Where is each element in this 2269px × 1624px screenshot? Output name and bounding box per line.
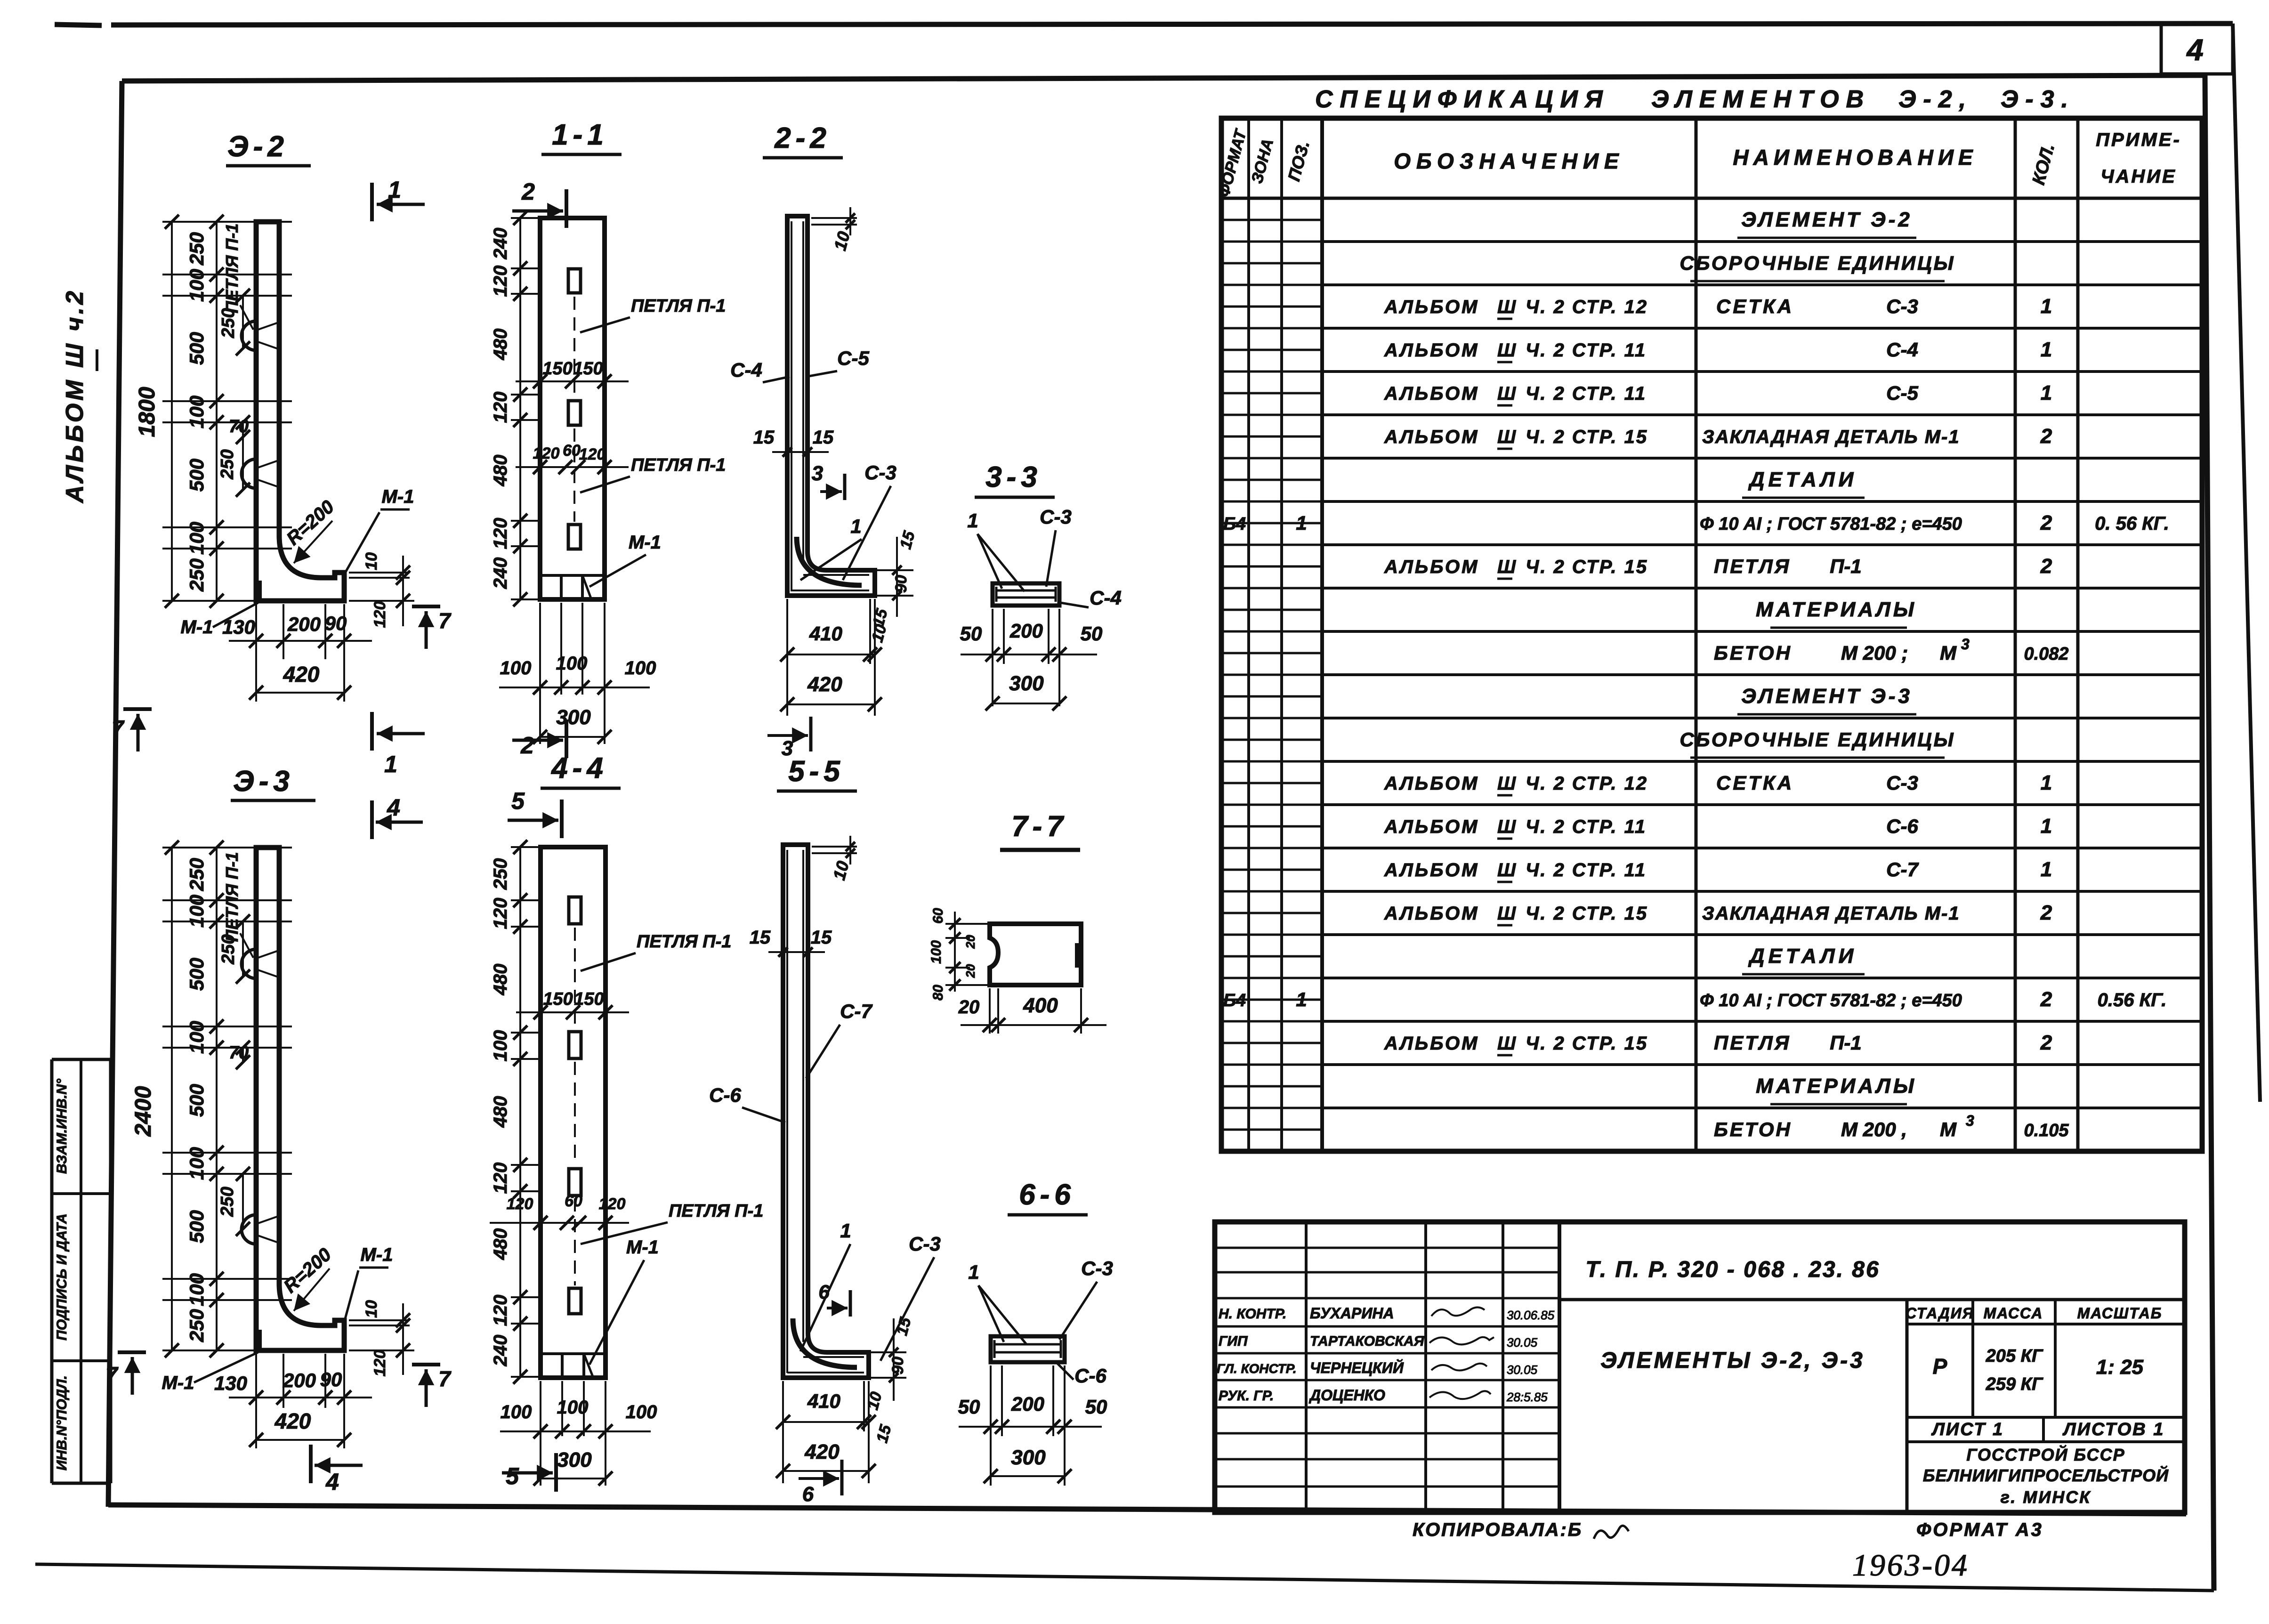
- 4-4 center dash line: [574, 928, 576, 1029]
- svg-text:15: 15: [750, 927, 771, 948]
- svg-text:250: 250: [186, 558, 208, 592]
- 7-7 bottom dim 20 400: [989, 988, 991, 1034]
- svg-text:ЗАКЛАДНАЯ ДЕТАЛЬ М-1: ЗАКЛАДНАЯ ДЕТАЛЬ М-1: [1702, 427, 1960, 447]
- 5-5 bottom dim 420: [783, 1470, 869, 1472]
- svg-text:480: 480: [490, 1096, 511, 1128]
- E-3 section mark 7 right: [412, 1363, 440, 1366]
- svg-text:Ш: Ш: [1497, 773, 1516, 794]
- svg-text:420: 420: [807, 673, 842, 696]
- E-2 overall dim 1800: [171, 222, 173, 601]
- svg-text:КОПИРОВАЛА:Б: КОПИРОВАЛА:Б: [1413, 1519, 1583, 1540]
- E-3 bottom dim chain 130/200/90: [255, 1354, 257, 1448]
- svg-text:ГИП: ГИП: [1219, 1333, 1248, 1349]
- svg-text:ИНВ.N°ПОДЛ.: ИНВ.N°ПОДЛ.: [54, 1375, 70, 1470]
- E-2 extension lines: [162, 221, 292, 223]
- svg-text:300: 300: [1009, 672, 1044, 695]
- svg-text:90: 90: [892, 575, 910, 593]
- svg-text:120: 120: [599, 1195, 626, 1213]
- 1-1 bottom band M-1: [540, 574, 605, 577]
- svg-text:250: 250: [218, 1187, 237, 1217]
- svg-text:ФОРМАТ А3: ФОРМАТ А3: [1916, 1519, 2043, 1540]
- svg-text:100: 100: [186, 522, 208, 555]
- E-3 loop position dims: [242, 921, 244, 977]
- svg-text:2: 2: [2040, 555, 2052, 578]
- svg-text:Ч. 2 СТР. 15: Ч. 2 СТР. 15: [1526, 557, 1648, 577]
- svg-text:500: 500: [186, 1210, 208, 1243]
- svg-text:205 КГ: 205 КГ: [1986, 1346, 2043, 1366]
- svg-text:120: 120: [490, 518, 511, 549]
- E-3 lifting loop 2: [242, 1215, 256, 1244]
- svg-text:200: 200: [1009, 620, 1043, 642]
- section mark 7 right: [412, 605, 440, 608]
- svg-text:500: 500: [186, 958, 208, 991]
- svg-text:410: 410: [809, 622, 842, 645]
- 2-2 bottom dim 420: [787, 703, 875, 705]
- 4-4 bottom dims 100x3: [540, 1381, 541, 1486]
- svg-text:ЭЛЕМЕНТ Э-3: ЭЛЕМЕНТ Э-3: [1741, 685, 1913, 708]
- svg-text:120: 120: [371, 601, 389, 628]
- svg-text:ДОЦЕНКО: ДОЦЕНКО: [1308, 1387, 1385, 1404]
- svg-text:АЛЬБОМ: АЛЬБОМ: [1384, 340, 1479, 361]
- svg-text:АЛЬБОМ Ш ч.2: АЛЬБОМ Ш ч.2: [61, 288, 89, 504]
- svg-text:РУК. ГР.: РУК. ГР.: [1219, 1388, 1274, 1404]
- svg-text:Б4: Б4: [1223, 514, 1246, 534]
- 2-2 dim 15 15: [772, 451, 829, 453]
- svg-text:6: 6: [818, 1281, 830, 1303]
- title block stage/mass/scale headers: [1907, 1323, 2185, 1325]
- E-3 bottom dim 420: [256, 1439, 344, 1441]
- svg-text:АЛЬБОМ: АЛЬБОМ: [1384, 1033, 1479, 1054]
- svg-text:Ш: Ш: [1497, 297, 1516, 317]
- svg-text:120: 120: [371, 1350, 389, 1377]
- E-2 bottom dim 420: [256, 692, 344, 694]
- 4-4 slot hole 1: [569, 897, 581, 924]
- svg-text:100: 100: [186, 895, 208, 928]
- svg-text:30.05: 30.05: [1507, 1335, 1538, 1349]
- svg-text:50: 50: [958, 1396, 980, 1418]
- svg-text:3: 3: [1961, 636, 1970, 653]
- drawing frame: [122, 75, 2204, 81]
- svg-text:СБОРОЧНЫЕ ЕДИНИЦЫ: СБОРОЧНЫЕ ЕДИНИЦЫ: [1680, 252, 1955, 274]
- svg-text:4: 4: [387, 794, 400, 821]
- svg-text:ВЗАМ.ИНВ.N°: ВЗАМ.ИНВ.N°: [54, 1078, 70, 1174]
- 1-1 bottom dim 300: [540, 736, 605, 738]
- svg-text:АЛЬБОМ: АЛЬБОМ: [1384, 297, 1479, 317]
- svg-text:С-7: С-7: [840, 1000, 872, 1022]
- svg-text:Ч. 2 СТР. 15: Ч. 2 СТР. 15: [1526, 427, 1648, 447]
- svg-text:90: 90: [889, 1357, 907, 1374]
- svg-text:СТАДИЯ: СТАДИЯ: [1906, 1305, 1974, 1322]
- 6-6 mesh lines: [994, 1343, 1061, 1346]
- svg-text:420: 420: [804, 1440, 840, 1463]
- svg-text:120: 120: [579, 445, 606, 463]
- svg-text:100: 100: [186, 1021, 208, 1054]
- side stamp boxes: [52, 1058, 111, 1061]
- page bottom edge line: [35, 1564, 2214, 1591]
- svg-text:100: 100: [186, 1147, 208, 1180]
- E-2 profile outline: [256, 222, 344, 601]
- svg-text:300: 300: [1011, 1446, 1046, 1469]
- svg-text:ПОДПИСЬ И ДАТА: ПОДПИСЬ И ДАТА: [54, 1213, 70, 1341]
- svg-text:1: 1: [2041, 815, 2052, 838]
- spec table outer box: [1221, 118, 2202, 1151]
- svg-text:М 200 ,: М 200 ,: [1841, 1118, 1907, 1140]
- spec table header bottom line: [1221, 197, 2202, 200]
- svg-text:Ш: Ш: [1497, 383, 1516, 404]
- svg-text:4: 4: [2186, 33, 2204, 67]
- svg-text:2-2: 2-2: [774, 122, 831, 154]
- svg-text:120: 120: [490, 266, 511, 297]
- 4-4 slot hole 2: [569, 1032, 581, 1058]
- svg-text:200: 200: [283, 1369, 316, 1391]
- svg-text:С-3: С-3: [1081, 1257, 1113, 1279]
- svg-text:240: 240: [490, 228, 511, 260]
- E-3 lifting loop 1: [242, 949, 256, 978]
- 1-1 left dim chain: [519, 218, 521, 599]
- svg-text:ЧЕРНЕЦКИЙ: ЧЕРНЕЦКИЙ: [1310, 1359, 1404, 1376]
- E-3 flange end dim 120: [349, 1349, 414, 1351]
- svg-text:1: 1: [840, 1220, 851, 1242]
- svg-text:ПРИМЕ-: ПРИМЕ-: [2096, 129, 2181, 150]
- svg-text:1: 1: [1296, 988, 1307, 1010]
- svg-text:С-3: С-3: [1886, 295, 1918, 317]
- svg-text:Ч. 2 СТР. 12: Ч. 2 СТР. 12: [1526, 773, 1648, 794]
- page right outer border: [2233, 24, 2260, 1102]
- svg-text:1: 1: [388, 177, 401, 203]
- svg-text:5: 5: [506, 1463, 519, 1489]
- svg-text:ЭЛЕМЕНТЫ Э-2, Э-3: ЭЛЕМЕНТЫ Э-2, Э-3: [1600, 1348, 1865, 1373]
- 6-6 bottom dims 50 200 50: [990, 1365, 992, 1486]
- svg-text:50: 50: [960, 622, 982, 645]
- E-2 lifting loop 2: [242, 459, 256, 488]
- svg-text:П-1: П-1: [1830, 555, 1862, 577]
- svg-text:2400: 2400: [131, 1086, 156, 1137]
- svg-text:420: 420: [283, 662, 320, 687]
- svg-text:420: 420: [275, 1409, 311, 1433]
- svg-text:С-3: С-3: [909, 1233, 941, 1255]
- 4-4 left dim chain: [519, 847, 521, 1378]
- 6-6 bottom dim 300: [991, 1475, 1065, 1477]
- 7-7 body outline: [990, 924, 1081, 985]
- svg-text:150: 150: [573, 359, 603, 379]
- svg-text:СБОРОЧНЫЕ ЕДИНИЦЫ: СБОРОЧНЫЕ ЕДИНИЦЫ: [1680, 728, 1955, 751]
- 1-1 bottom dims 100x3: [539, 603, 541, 744]
- svg-text:1: 1: [850, 515, 861, 537]
- svg-text:250: 250: [490, 858, 511, 890]
- svg-text:100: 100: [625, 658, 656, 679]
- svg-text:100: 100: [557, 1397, 589, 1418]
- svg-text:Ч. 2 СТР. 11: Ч. 2 СТР. 11: [1526, 383, 1647, 404]
- svg-text:ГОССТРОЙ БССР: ГОССТРОЙ БССР: [1966, 1445, 2125, 1464]
- svg-text:130: 130: [222, 616, 255, 638]
- svg-text:ПЕТЛЯ: ПЕТЛЯ: [1714, 555, 1791, 577]
- svg-text:ДЕТАЛИ: ДЕТАЛИ: [1748, 468, 1857, 491]
- svg-text:130: 130: [214, 1372, 247, 1394]
- svg-text:6-6: 6-6: [1019, 1179, 1075, 1211]
- 3-3 mesh lines: [996, 590, 1056, 592]
- spec table verticals: [1247, 118, 1250, 1151]
- svg-text:М: М: [1940, 1118, 1957, 1140]
- svg-text:БУХАРИНА: БУХАРИНА: [1310, 1305, 1394, 1322]
- 4-4 body outline: [541, 847, 606, 1378]
- E-3 overall dim 2400: [171, 848, 173, 1350]
- title block outer: [1215, 1222, 2185, 1512]
- svg-text:ЭЛЕМЕНТ Э-2: ЭЛЕМЕНТ Э-2: [1741, 208, 1913, 231]
- svg-text:2: 2: [2040, 425, 2052, 448]
- 2-2 flange end dims 90 15: [877, 569, 913, 571]
- svg-text:240: 240: [490, 1335, 511, 1367]
- title block list row: [1907, 1440, 2185, 1443]
- svg-text:300: 300: [557, 1448, 592, 1471]
- svg-text:Ш: Ш: [1497, 557, 1516, 577]
- svg-text:1: 1: [384, 751, 397, 777]
- svg-text:Б4: Б4: [1223, 991, 1246, 1010]
- svg-text:Ч. 2 СТР. 11: Ч. 2 СТР. 11: [1526, 860, 1647, 881]
- svg-text:МАТЕРИАЛЫ: МАТЕРИАЛЫ: [1756, 1075, 1917, 1098]
- svg-text:1: 1: [2041, 295, 2052, 318]
- svg-text:ГЛ. КОНСТР.: ГЛ. КОНСТР.: [1217, 1361, 1297, 1376]
- svg-text:М-1: М-1: [626, 1237, 659, 1258]
- svg-text:150: 150: [574, 989, 604, 1009]
- E-3 profile outline: [256, 848, 344, 1350]
- svg-text:100: 100: [490, 1030, 511, 1062]
- svg-text:1: 1: [2041, 771, 2052, 794]
- svg-text:ПЕТЛЯ: ПЕТЛЯ: [1714, 1032, 1791, 1054]
- svg-text:АЛЬБОМ: АЛЬБОМ: [1384, 816, 1479, 837]
- svg-text:30.05: 30.05: [1507, 1363, 1538, 1377]
- 4-4 slot hole 3: [569, 1169, 581, 1196]
- svg-text:СЕТКА: СЕТКА: [1716, 295, 1794, 317]
- title block left section verticals: [1305, 1222, 1308, 1512]
- svg-text:АЛЬБОМ: АЛЬБОМ: [1384, 903, 1479, 924]
- svg-text:250: 250: [186, 232, 208, 266]
- svg-text:60: 60: [563, 442, 581, 460]
- svg-text:480: 480: [490, 455, 511, 487]
- section mark 1 bottom: [370, 712, 374, 751]
- svg-text:70: 70: [229, 1043, 249, 1063]
- svg-text:ОБОЗНАЧЕНИЕ: ОБОЗНАЧЕНИЕ: [1394, 149, 1624, 173]
- svg-text:0.082: 0.082: [2024, 644, 2068, 664]
- svg-text:120: 120: [490, 898, 511, 929]
- svg-text:Ф 10 АI ; ГОСТ 5781-82 ; е=450: Ф 10 АI ; ГОСТ 5781-82 ; е=450: [1700, 514, 1962, 534]
- svg-text:10: 10: [363, 552, 380, 570]
- sheet number box: [2160, 24, 2163, 74]
- svg-text:120: 120: [533, 444, 560, 462]
- E-3 dim chain: [216, 848, 218, 1350]
- E-2 embedded plate M-1 mark: [257, 581, 262, 600]
- 6-6 bar outline: [991, 1336, 1065, 1362]
- svg-text:60: 60: [930, 908, 946, 924]
- svg-text:480: 480: [490, 1228, 511, 1260]
- 2-2 mesh C-3 lines: [803, 574, 869, 576]
- svg-text:5: 5: [511, 788, 525, 814]
- svg-text:С-5: С-5: [1886, 382, 1918, 404]
- svg-text:ЛИСТОВ 1: ЛИСТОВ 1: [2062, 1420, 2165, 1439]
- section mark 7 left: [123, 707, 152, 711]
- signature squiggles: [1431, 1307, 1485, 1316]
- svg-text:100: 100: [500, 658, 532, 679]
- svg-text:М: М: [1940, 642, 1957, 664]
- svg-text:С-6: С-6: [1074, 1365, 1106, 1387]
- svg-text:30.06.85: 30.06.85: [1507, 1308, 1555, 1322]
- svg-text:410: 410: [807, 1390, 840, 1412]
- 7-7 left dim chain: [954, 912, 956, 992]
- svg-text:С-3: С-3: [1040, 506, 1072, 528]
- 5-5 mesh C-6 line: [786, 850, 788, 1373]
- 1-1 slot hole 3: [568, 525, 581, 549]
- svg-text:Н. КОНТР.: Н. КОНТР.: [1219, 1306, 1286, 1322]
- E-2 flange end dim 10: [349, 572, 410, 574]
- spec table row lines: [1322, 240, 2202, 243]
- svg-text:50: 50: [1085, 1396, 1107, 1418]
- E-3 embedded plate M-1 mark: [257, 1330, 262, 1349]
- svg-text:БЕТОН: БЕТОН: [1714, 1118, 1792, 1140]
- svg-text:10: 10: [363, 1300, 380, 1318]
- svg-text:ПЕТЛЯ П-1: ПЕТЛЯ П-1: [222, 224, 242, 314]
- svg-text:ПЕТЛЯ П-1: ПЕТЛЯ П-1: [631, 455, 726, 475]
- svg-text:200: 200: [287, 613, 321, 635]
- svg-text:70: 70: [229, 417, 249, 436]
- E-3 flange end dim 10: [349, 1319, 410, 1321]
- svg-text:ЛИСТ 1: ЛИСТ 1: [1931, 1420, 2004, 1439]
- svg-text:1800: 1800: [135, 387, 160, 437]
- svg-text:250: 250: [186, 858, 208, 891]
- svg-text:АЛЬБОМ: АЛЬБОМ: [1384, 860, 1479, 881]
- E-3 extension lines: [162, 847, 292, 848]
- svg-text:Ч. 2 СТР. 11: Ч. 2 СТР. 11: [1526, 816, 1647, 837]
- svg-text:6: 6: [802, 1483, 814, 1506]
- svg-text:0. 56 КГ.: 0. 56 КГ.: [2095, 513, 2169, 534]
- 2-2 corner bar 1: [797, 537, 862, 585]
- E-2 dim chain 250/100/500/100/500/100/250: [216, 222, 218, 601]
- svg-text:2: 2: [2040, 988, 2052, 1011]
- svg-text:100: 100: [626, 1402, 657, 1422]
- svg-text:300: 300: [556, 706, 591, 729]
- svg-text:240: 240: [490, 557, 511, 590]
- svg-text:ТАРТАКОВСКАЯ: ТАРТАКОВСКАЯ: [1310, 1333, 1425, 1349]
- section mark 1 top: [370, 183, 374, 221]
- svg-text:Ч. 2 СТР. 15: Ч. 2 СТР. 15: [1526, 1033, 1648, 1054]
- E-2 lifting loop 1: [242, 321, 256, 350]
- svg-text:3-3: 3-3: [985, 461, 1042, 493]
- 2-2 mesh C-4 line: [791, 221, 792, 591]
- 1-1 dim 120 60 120: [516, 466, 629, 468]
- svg-text:7: 7: [438, 608, 452, 633]
- section mark 4 top: [370, 800, 374, 839]
- svg-text:500: 500: [186, 1084, 208, 1117]
- svg-text:СЕТКА: СЕТКА: [1716, 772, 1794, 794]
- svg-text:С-7: С-7: [1886, 858, 1919, 881]
- svg-text:100: 100: [501, 1402, 532, 1422]
- svg-text:2: 2: [2040, 1031, 2052, 1054]
- 2-2 bottom dim 410 10: [786, 599, 788, 716]
- svg-text:60: 60: [565, 1192, 582, 1210]
- svg-text:М-1: М-1: [382, 486, 414, 507]
- 3-3 bottom dim 300: [993, 703, 1059, 704]
- 3-3 bottom dims 50 200 50: [992, 609, 993, 706]
- svg-text:20: 20: [963, 935, 977, 949]
- svg-text:200: 200: [1011, 1393, 1044, 1415]
- svg-text:М-1: М-1: [361, 1244, 393, 1265]
- svg-text:АЛЬБОМ: АЛЬБОМ: [1384, 383, 1479, 404]
- svg-text:ПЕТЛЯ П-1: ПЕТЛЯ П-1: [669, 1201, 763, 1221]
- svg-text:7: 7: [112, 716, 125, 740]
- svg-text:1: 1: [2041, 381, 2052, 404]
- svg-text:15: 15: [753, 427, 775, 448]
- svg-text:3: 3: [1966, 1112, 1974, 1129]
- svg-text:С-4: С-4: [1090, 587, 1122, 609]
- svg-text:БЕТОН: БЕТОН: [1714, 642, 1792, 664]
- svg-text:Ш: Ш: [1497, 903, 1516, 924]
- svg-text:7-7: 7-7: [1011, 810, 1068, 843]
- svg-text:Ш: Ш: [1497, 816, 1516, 837]
- svg-text:5-5: 5-5: [788, 755, 845, 788]
- svg-text:Ч. 2 СТР. 11: Ч. 2 СТР. 11: [1526, 340, 1647, 361]
- svg-text:С-6: С-6: [709, 1084, 741, 1106]
- svg-text:Ф 10 АI ; ГОСТ 5781-82 ; е=450: Ф 10 АI ; ГОСТ 5781-82 ; е=450: [1700, 991, 1962, 1010]
- 1-1 slot hole 2: [568, 401, 581, 425]
- 1-1 dim 150 150: [516, 380, 629, 382]
- svg-text:400: 400: [1023, 994, 1058, 1017]
- title block name cell: [1906, 1300, 1909, 1512]
- svg-text:150: 150: [542, 359, 572, 379]
- svg-text:Ш: Ш: [1497, 427, 1516, 447]
- svg-text:80: 80: [930, 985, 946, 1001]
- svg-text:2: 2: [2040, 901, 2052, 924]
- svg-text:БЕЛНИИГИПРОСЕЛЬСТРОЙ: БЕЛНИИГИПРОСЕЛЬСТРОЙ: [1923, 1465, 2169, 1485]
- 4-4 slot hole 4: [569, 1288, 581, 1314]
- svg-text:1: 1: [967, 509, 978, 532]
- 5-5 top dim 10: [812, 846, 857, 848]
- svg-text:С-3: С-3: [864, 461, 896, 484]
- svg-text:ПЕТЛЯ П-1: ПЕТЛЯ П-1: [631, 296, 726, 316]
- svg-text:Р: Р: [1933, 1354, 1947, 1379]
- svg-text:15: 15: [811, 927, 832, 948]
- E-2 bottom dim chain 130/200/90: [255, 604, 257, 702]
- svg-text:15: 15: [813, 427, 834, 448]
- svg-text:2: 2: [520, 732, 534, 759]
- svg-text:2: 2: [521, 178, 535, 205]
- svg-text:М 200 ;: М 200 ;: [1841, 642, 1908, 664]
- 5-5 body outline: [783, 845, 869, 1378]
- svg-text:1: 1: [2041, 858, 2052, 881]
- svg-text:90: 90: [325, 612, 347, 634]
- svg-text:АЛЬБОМ: АЛЬБОМ: [1384, 773, 1479, 794]
- svg-text:Ш: Ш: [1497, 1033, 1516, 1054]
- spec table half rows in narrow columns: [1221, 219, 1322, 221]
- svg-text:0.56 КГ.: 0.56 КГ.: [2098, 990, 2167, 1010]
- svg-text:ПЕТЛЯ П-1: ПЕТЛЯ П-1: [637, 932, 731, 952]
- 5-5 mesh C-3 lines: [803, 1356, 864, 1358]
- 2-2 body outline: [787, 216, 875, 596]
- svg-text:АЛЬБОМ: АЛЬБОМ: [1384, 427, 1479, 447]
- svg-text:1: 25: 1: 25: [2096, 1356, 2144, 1379]
- svg-text:2: 2: [2040, 511, 2052, 534]
- svg-text:С-4: С-4: [1886, 339, 1918, 361]
- svg-text:С-6: С-6: [1886, 815, 1918, 837]
- svg-text:ЗАКЛАДНАЯ ДЕТАЛЬ М-1: ЗАКЛАДНАЯ ДЕТАЛЬ М-1: [1702, 903, 1960, 924]
- svg-text:С-4: С-4: [730, 359, 762, 381]
- svg-text:Э-3: Э-3: [233, 765, 294, 798]
- svg-text:Ч. 2 СТР. 15: Ч. 2 СТР. 15: [1526, 903, 1648, 924]
- svg-text:7: 7: [105, 1362, 119, 1387]
- 2-2 top dim 10: [811, 217, 857, 219]
- svg-text:20: 20: [963, 964, 977, 978]
- album III underline: [96, 349, 98, 371]
- E-2 flange end dim 120: [349, 600, 414, 602]
- 4-4 dim 150 150: [516, 1011, 629, 1013]
- svg-text:Т. П. Р. 320 - 068 . 23. 86: Т. П. Р. 320 - 068 . 23. 86: [1585, 1257, 1880, 1282]
